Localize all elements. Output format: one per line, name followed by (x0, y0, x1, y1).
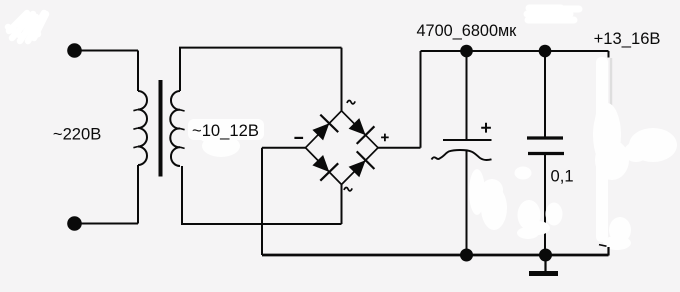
transformer secondary winding (170, 91, 180, 166)
transformer T1 core (159, 80, 163, 177)
wire: primary bottom terminal to transformer (75, 165, 139, 224)
diode VD2 (top-right) (349, 118, 375, 144)
wire: secondary top to bridge ~ top (180, 48, 342, 111)
plus sign of C1 (481, 123, 491, 133)
label plus at bridge (381, 134, 389, 142)
node: top junction of C1 (460, 45, 473, 58)
wire: secondary bottom to bridge ~ bottom (181, 166, 342, 224)
diode VD1 (top-left) (312, 115, 338, 141)
wire: bridge minus corner left and down (262, 148, 306, 255)
ghost of erased right vertical wire (610, 58, 613, 113)
white paint patch behind secondary label (188, 119, 264, 157)
capacitor C2 0.1uF (527, 51, 564, 255)
white paint scribble top-left (8, 13, 46, 41)
svg-text:~10_12В: ~10_12В (192, 121, 259, 140)
white paint over erased right-side wire (593, 57, 677, 250)
minus remnant near bottom-right (599, 245, 607, 247)
diode VD3 (bottom-left) (312, 155, 338, 181)
terminal: mains top (67, 43, 82, 58)
node: bottom junction of C2 / ground (539, 249, 552, 262)
diode VD4 (bottom-right) (349, 151, 375, 177)
bridge diamond wires (306, 111, 379, 185)
white paint swipe above C2 label (527, 8, 579, 20)
svg-text:~220В: ~220В (53, 125, 101, 144)
ground symbol (544, 256, 546, 272)
node: top junction of C2 (539, 45, 552, 58)
wire: bottom rail (262, 254, 609, 257)
svg-text:4700_6800мк: 4700_6800мк (417, 22, 518, 40)
terminal: mains bottom (67, 216, 82, 231)
label ~ top of bridge (347, 100, 355, 103)
node: bottom junction of C1 (460, 249, 473, 262)
svg-text:0,1: 0,1 (551, 167, 574, 186)
capacitor C1 electrolytic 4700_6800uF (432, 51, 492, 255)
wire: primary top terminal to transformer (75, 48, 609, 255)
white paint blob left of 0,1 label (515, 167, 532, 180)
label ~ bottom of bridge (344, 187, 352, 190)
wire: bridge plus corner right and up to top rail (378, 51, 609, 148)
svg-text:+13_16В: +13_16В (594, 29, 661, 48)
label minus at bridge (294, 137, 303, 139)
white paint blob right of C1 lead (469, 169, 563, 239)
wire: bottom-right hook up (607, 247, 609, 256)
transformer primary winding (138, 91, 147, 165)
